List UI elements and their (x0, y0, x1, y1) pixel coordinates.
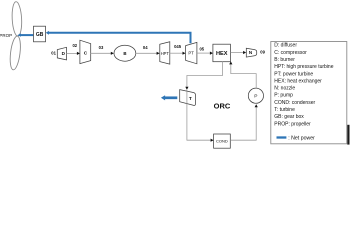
svg-text:COND: COND (216, 139, 228, 144)
svg-text:05: 05 (199, 46, 204, 51)
legend box (271, 42, 350, 145)
svg-text:B: burner: B: burner (274, 57, 295, 63)
wire HEX to N (230, 51, 246, 54)
svg-text:PROP: PROP (0, 33, 12, 38)
svg-text:D: diffuser: D: diffuser (274, 43, 297, 49)
legend net power line (blue) (277, 135, 316, 141)
propeller PROP bottom blade (9, 35, 22, 70)
svg-text:GB: gear box: GB: gear box (274, 114, 304, 120)
svg-text:04: 04 (143, 45, 148, 50)
burner B (114, 45, 136, 61)
wire COND to P (230, 104, 257, 140)
svg-text:03: 03 (99, 45, 104, 50)
svg-text:09: 09 (260, 49, 265, 54)
svg-text:T: turbine: T: turbine (274, 107, 295, 113)
wire through T down to COND (186, 90, 188, 141)
heat exchanger HEX (213, 44, 231, 62)
svg-text:P: P (254, 94, 257, 100)
wire P to HEX (229, 61, 256, 88)
net power arrow GB to PROP (blue) (17, 33, 33, 36)
svg-text:GB: GB (36, 32, 44, 38)
svg-text:N: nozzle: N: nozzle (274, 86, 295, 92)
gear box GB (34, 26, 46, 42)
svg-text:T: T (189, 96, 192, 102)
svg-text:: Net power: : Net power (288, 135, 315, 141)
svg-text:01: 01 (51, 51, 56, 56)
diffuser D (57, 47, 66, 60)
wire C to B (91, 52, 114, 55)
svg-text:COND: condenser: COND: condenser (274, 100, 315, 106)
svg-text:PT: power turbine: PT: power turbine (274, 71, 313, 77)
net power arrow from T (blue thick) (161, 95, 177, 100)
svg-text:ORC: ORC (214, 101, 231, 110)
compressor C (80, 40, 91, 63)
high pressure turbine HPT (160, 42, 170, 64)
net power line PT to GB (blue) (46, 31, 191, 43)
wire B to HPT (136, 52, 160, 55)
pump P (248, 88, 263, 103)
wire D to C (67, 52, 80, 55)
propeller PROP top blade (11, 1, 22, 36)
legend text (274, 43, 333, 128)
power turbine PT (186, 42, 197, 63)
svg-text:02: 02 (72, 43, 77, 48)
svg-text:HPT: high pressure turbine: HPT: high pressure turbine (274, 64, 333, 70)
svg-text:HEX: heat exchanger: HEX: heat exchanger (274, 78, 322, 84)
svg-text:HPT: HPT (161, 51, 170, 56)
svg-text:PROP: propeller: PROP: propeller (274, 121, 311, 127)
svg-text:PT: PT (188, 51, 194, 56)
wire HPT to PT (170, 52, 186, 55)
wire PT to HEX (197, 52, 213, 55)
svg-text:P: pump: P: pump (274, 93, 293, 99)
svg-text:HEX: HEX (216, 51, 228, 57)
svg-text:B: B (123, 51, 126, 56)
nozzle N (246, 48, 256, 57)
condenser COND (214, 134, 231, 148)
wire HEX to T (ORC vapor) (185, 62, 222, 90)
svg-text:045: 045 (174, 44, 182, 49)
svg-text:C: compressor: C: compressor (274, 50, 307, 56)
ORC turbine T (180, 90, 196, 106)
wire T to COND (187, 139, 214, 142)
svg-text:C: C (84, 50, 88, 56)
